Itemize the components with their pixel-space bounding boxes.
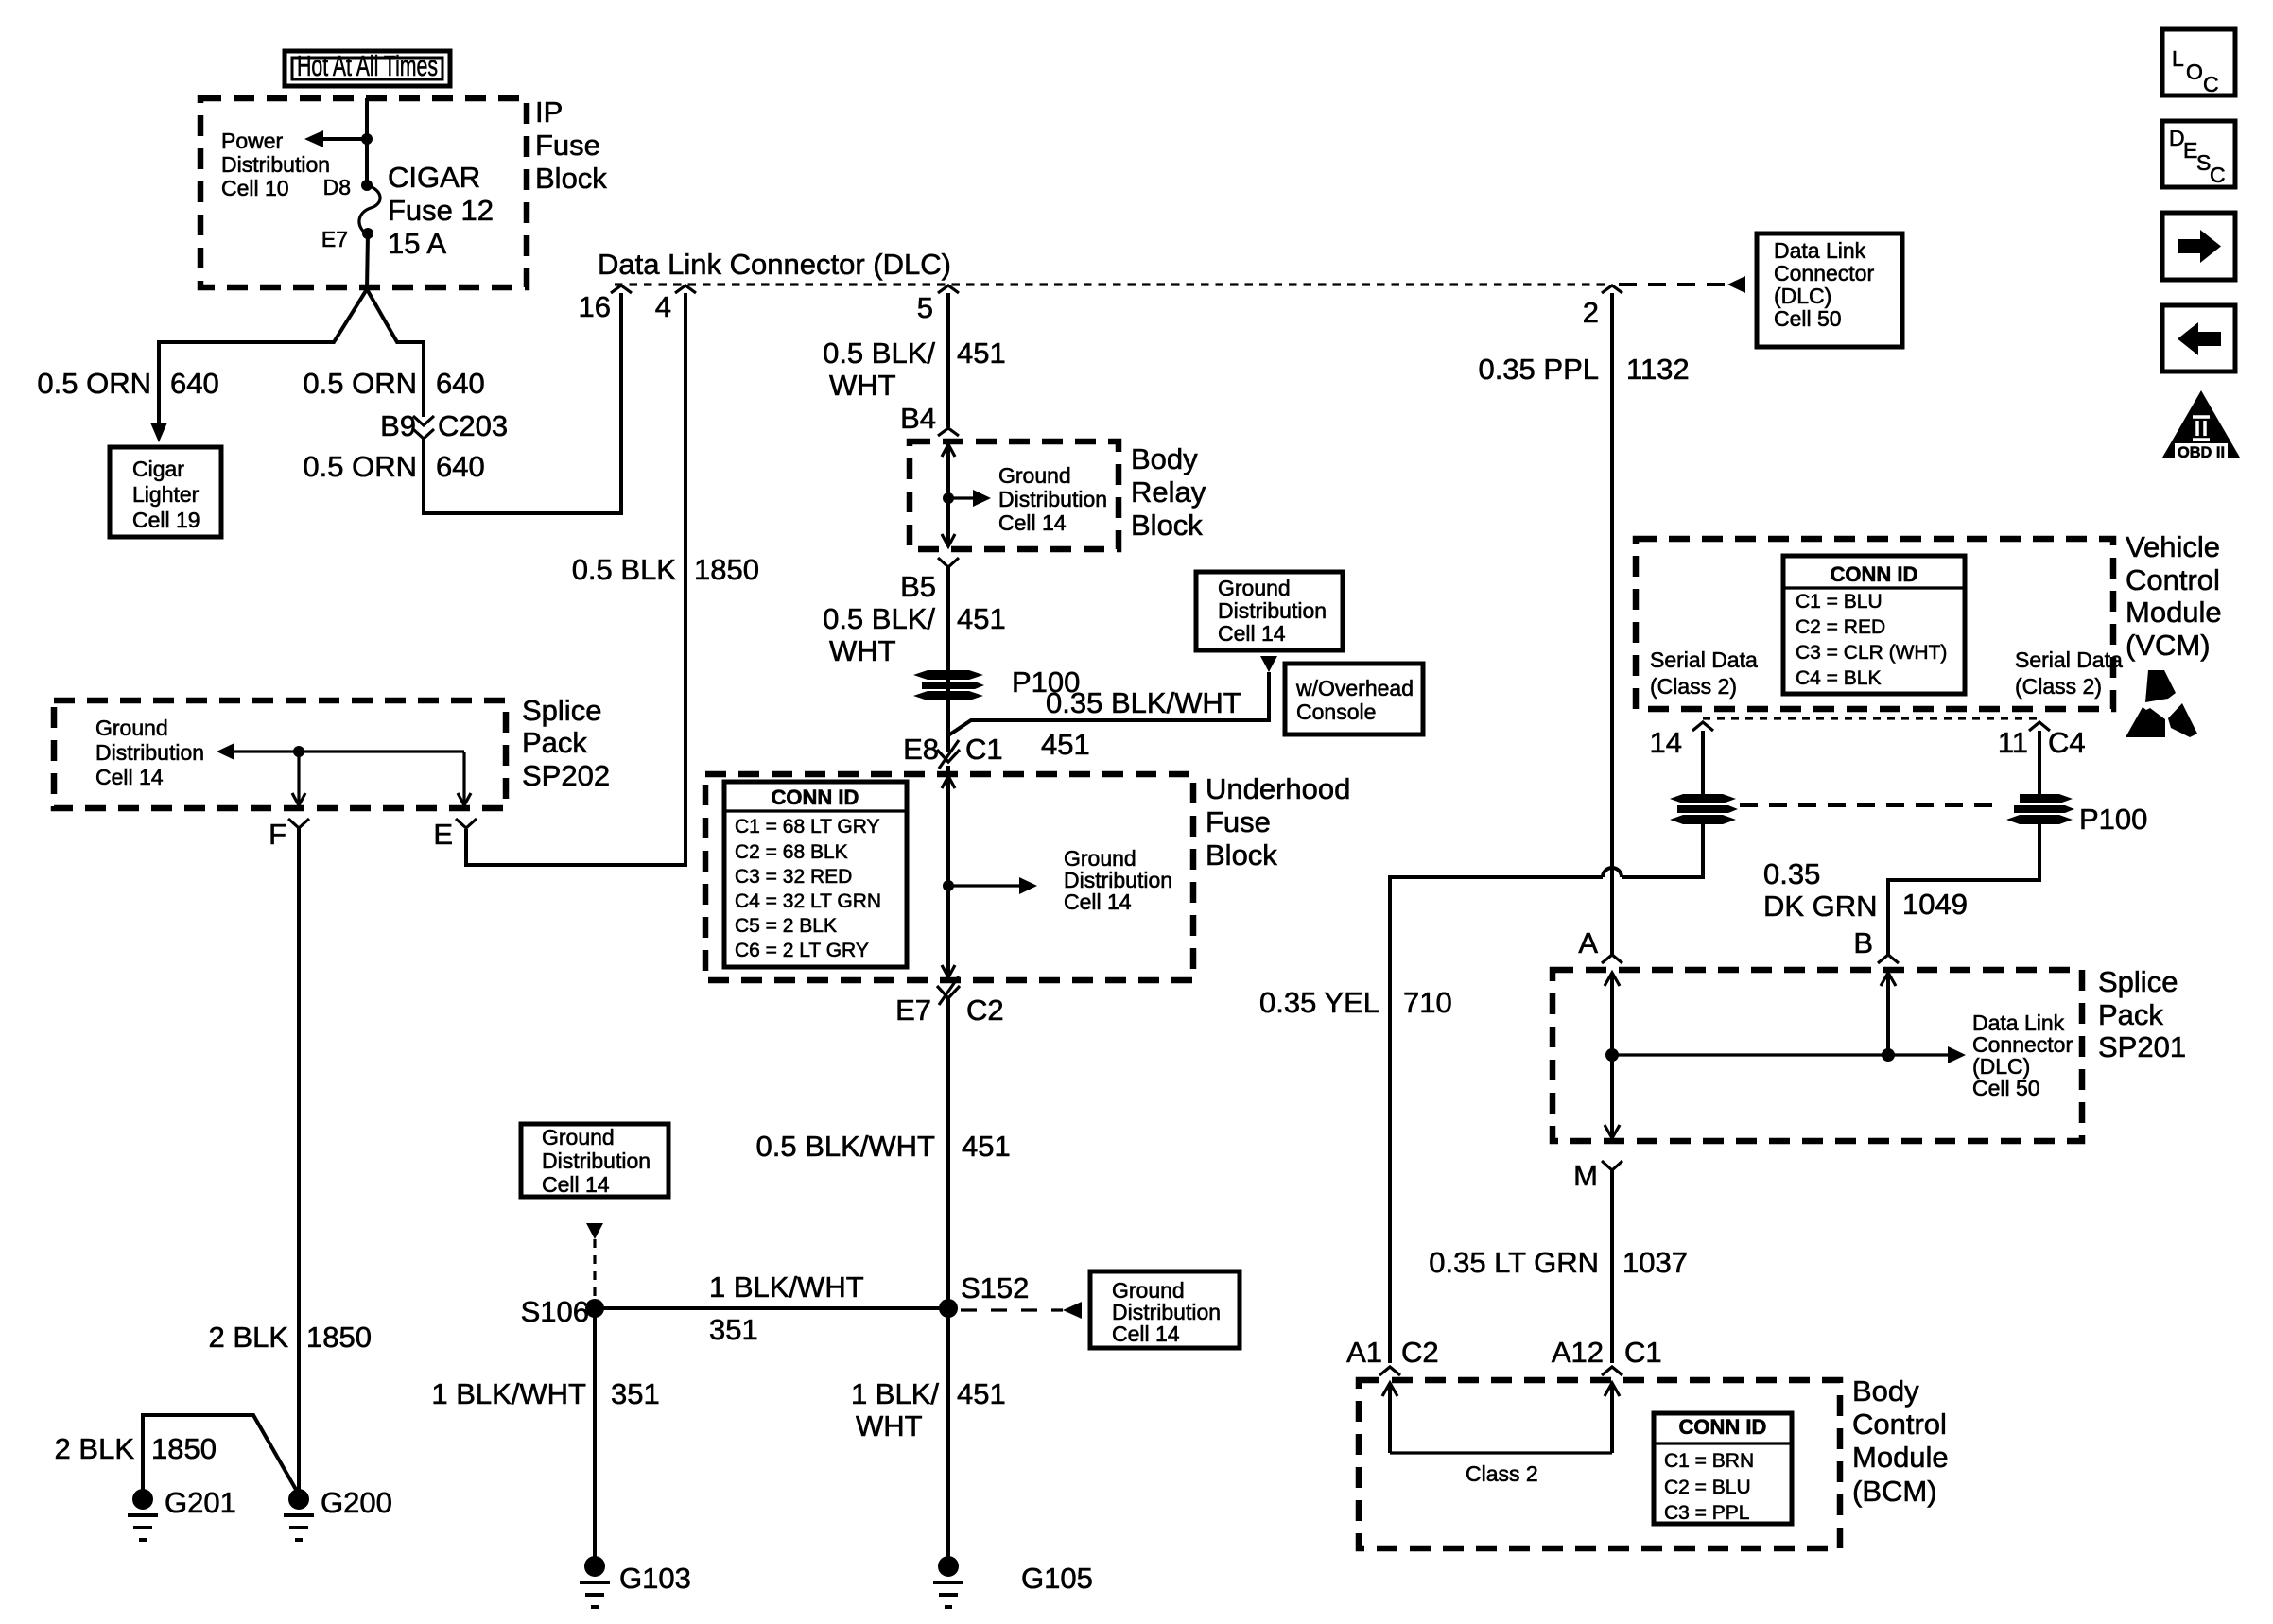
wire: P100 down then jog left to B <box>1888 819 2039 956</box>
svg-text:Module: Module <box>2126 596 2222 629</box>
arrow to data link connector (tip right) <box>1948 1046 1966 1063</box>
node: tap to ground distribution <box>943 492 954 504</box>
svg-text:C3 = 32 RED: C3 = 32 RED <box>735 866 852 888</box>
svg-text:Cell 14: Cell 14 <box>1112 1322 1180 1346</box>
svg-text:w/Overhead: w/Overhead <box>1295 676 1414 700</box>
DLC pin 5 chevron <box>938 285 959 293</box>
DLC connector face (dashed bus) <box>615 283 1607 285</box>
svg-text:CONN ID: CONN ID <box>1679 1415 1767 1439</box>
wire: S106 down to G103 <box>593 1308 597 1566</box>
svg-text:E7: E7 <box>321 227 348 251</box>
wire: pin 11 to P100 <box>2038 731 2041 794</box>
svg-text:DK GRN: DK GRN <box>1763 890 1878 923</box>
svg-text:C1: C1 <box>1624 1336 1662 1369</box>
svg-text:Cell 14: Cell 14 <box>1064 890 1132 914</box>
svg-text:B5: B5 <box>900 570 936 603</box>
wire: DLC pin 5 down to B4 <box>946 293 950 427</box>
arrow down (SP201 A exit) <box>1605 1125 1620 1138</box>
svg-text:Pack: Pack <box>522 726 587 759</box>
svg-text:SP201: SP201 <box>2098 1030 2186 1063</box>
ground distribution cell 14 box (S152) <box>1090 1271 1240 1348</box>
svg-text:B4: B4 <box>900 402 936 435</box>
svg-text:C4: C4 <box>2048 726 2086 759</box>
ground G103 <box>580 1556 610 1607</box>
svg-text:0.35 LT GRN: 0.35 LT GRN <box>1429 1246 1599 1279</box>
connector B5 chevron <box>938 558 959 567</box>
w/overhead console box <box>1285 664 1423 734</box>
svg-text:O: O <box>2186 60 2203 84</box>
connector A12 chevron <box>1602 1367 1622 1375</box>
wire: G201 branch <box>143 1415 299 1494</box>
connector P100 grommet (pin 14) <box>1670 794 1738 824</box>
svg-text:S106: S106 <box>521 1295 589 1328</box>
svg-text:Distribution: Distribution <box>998 487 1107 511</box>
wire: drop to F <box>297 752 300 803</box>
svg-text:Cell 14: Cell 14 <box>542 1172 610 1197</box>
svg-text:E: E <box>433 818 453 851</box>
svg-text:G201: G201 <box>165 1486 236 1519</box>
svg-text:CIGAR: CIGAR <box>388 161 480 194</box>
svg-text:Class 2: Class 2 <box>1466 1461 1538 1486</box>
arrow from ground distribution (tip left) <box>217 743 234 760</box>
svg-text:1 BLK/WHT: 1 BLK/WHT <box>709 1270 864 1304</box>
connector B chevron <box>1878 955 1899 963</box>
svg-text:5: 5 <box>917 291 933 324</box>
svg-text:Pack: Pack <box>2098 998 2163 1031</box>
svg-text:Relay: Relay <box>1131 475 1206 509</box>
connector P100 grommet (pin5 wire) <box>913 670 984 700</box>
fuse F12 squiggle <box>359 185 380 234</box>
svg-text:Block: Block <box>535 162 607 195</box>
svg-text:Serial Data: Serial Data <box>2015 648 2123 672</box>
node: SP201 splice junction A <box>1605 1048 1619 1062</box>
arrow up (BCM A12 entry) <box>1605 1383 1620 1396</box>
arrow up (SP201 B entry) <box>1881 973 1896 986</box>
svg-text:11: 11 <box>1998 726 2028 759</box>
svg-text:16: 16 <box>579 290 611 323</box>
svg-text:Fuse 12: Fuse 12 <box>388 194 494 227</box>
svg-text:SP202: SP202 <box>522 759 610 792</box>
connector E chevron <box>456 819 477 828</box>
arrow to Data Link Connector cell 50 box (tip left) <box>1727 276 1745 293</box>
wire: dashed from S152 to ground distribution arrow <box>961 1308 1063 1311</box>
svg-text:1850: 1850 <box>306 1321 372 1354</box>
svg-text:710: 710 <box>1403 986 1452 1019</box>
svg-text:(BCM): (BCM) <box>1852 1475 1937 1508</box>
svg-text:Body: Body <box>1852 1374 1919 1408</box>
svg-text:0.5 ORN: 0.5 ORN <box>37 367 151 400</box>
svg-text:C5 = 2 BLK: C5 = 2 BLK <box>735 915 837 937</box>
svg-text:Cell 10: Cell 10 <box>221 176 289 200</box>
connector A chevron <box>1602 955 1622 963</box>
svg-text:C: C <box>2203 72 2219 96</box>
arrow down (body relay bottom) <box>942 534 955 546</box>
svg-text:1 BLK/: 1 BLK/ <box>851 1377 939 1410</box>
svg-text:Body: Body <box>1131 442 1198 475</box>
svg-text:0.35 PPL: 0.35 PPL <box>1478 353 1599 386</box>
svg-text:CONN ID: CONN ID <box>1831 562 1918 586</box>
wire: F down to G200 <box>297 828 301 1492</box>
svg-text:Distribution: Distribution <box>221 152 330 177</box>
svg-text:2: 2 <box>1583 296 1599 329</box>
svg-text:C1: C1 <box>965 733 1003 766</box>
wire: through underhood block <box>946 766 950 977</box>
connector B4 chevron <box>938 428 959 436</box>
svg-text:Ground: Ground <box>95 716 168 740</box>
cigar lighter box <box>110 447 221 537</box>
wire: dashed stub to S106 <box>593 1239 596 1301</box>
svg-text:Vehicle: Vehicle <box>2126 530 2220 563</box>
wire: pin 14 to P100 <box>1701 731 1705 794</box>
svg-text:G103: G103 <box>619 1562 691 1595</box>
svg-text:Block: Block <box>1131 509 1203 542</box>
wire: A12 into BCM to class 2 bus <box>1610 1383 1614 1453</box>
svg-text:C3 = PPL: C3 = PPL <box>1664 1502 1749 1524</box>
arrow to ground distribution (tip right) <box>1019 877 1037 894</box>
svg-text:0.5 BLK/WHT: 0.5 BLK/WHT <box>756 1130 936 1163</box>
wire: through body relay block <box>946 444 950 546</box>
svg-text:Control: Control <box>2126 563 2220 596</box>
svg-text:Ground: Ground <box>998 463 1071 488</box>
wire: tap line (underhood) <box>948 884 1020 887</box>
svg-text:Block: Block <box>1206 838 1277 872</box>
svg-text:(DLC): (DLC) <box>1774 284 1831 308</box>
wire: splice bus to DLC cell 50 arrow <box>1612 1053 1948 1056</box>
arrow to ground distribution (tip right) <box>973 490 991 507</box>
hop over pin2 wire <box>1603 868 1622 877</box>
wire: fuse output to fork apex <box>367 233 368 289</box>
svg-text:B: B <box>1853 926 1873 959</box>
svg-text:C203: C203 <box>438 409 508 442</box>
svg-text:C2 = 68 BLK: C2 = 68 BLK <box>735 841 848 863</box>
wire: P100 to corner then left with hop to YEL drop <box>1622 819 1703 877</box>
svg-text:C2: C2 <box>1401 1336 1439 1369</box>
svg-text:0.35: 0.35 <box>1763 857 1820 890</box>
wire: drop to E <box>462 752 465 803</box>
svg-text:D8: D8 <box>323 175 351 199</box>
svg-text:0.5 BLK/: 0.5 BLK/ <box>823 337 935 370</box>
svg-text:B9: B9 <box>380 409 416 442</box>
svg-text:Data Link: Data Link <box>1774 238 1866 263</box>
svg-text:451: 451 <box>957 1377 1006 1410</box>
svg-text:Underhood: Underhood <box>1206 772 1350 805</box>
svg-text:15 A: 15 A <box>388 227 446 260</box>
node D8 <box>361 180 373 191</box>
arrow down (underhood bottom) <box>942 965 955 977</box>
connector F chevron <box>288 819 309 828</box>
icon DESC <box>2162 121 2235 187</box>
wire: A1 into BCM to class 2 bus <box>1388 1383 1392 1453</box>
wire: branch to overhead console <box>948 672 1269 735</box>
svg-text:Cell 14: Cell 14 <box>998 510 1067 535</box>
svg-text:(Class 2): (Class 2) <box>1650 674 1737 699</box>
svg-text:(VCM): (VCM) <box>2126 629 2211 662</box>
arrow up (body relay top) <box>942 444 955 457</box>
connector M chevron <box>1602 1161 1622 1170</box>
wire: fork right branch <box>367 289 424 417</box>
svg-text:451: 451 <box>957 337 1006 370</box>
icon ESD sensitive device <box>2126 670 2197 737</box>
svg-text:1850: 1850 <box>151 1432 217 1465</box>
node: tap to ground distribution (underhood) <box>943 880 954 891</box>
wire: tap line <box>948 496 974 499</box>
arrow up (underhood top) <box>942 776 955 788</box>
VCM pin 14 chevron <box>1692 722 1713 731</box>
svg-text:C1 = BRN: C1 = BRN <box>1664 1450 1754 1472</box>
svg-text:A12: A12 <box>1552 1336 1604 1369</box>
IP fuse block (dashed box) <box>200 98 527 287</box>
wire: B into SP201 <box>1886 973 1890 1055</box>
svg-text:640: 640 <box>436 367 485 400</box>
node: junction at power distribution tap <box>361 133 373 145</box>
svg-text:1 BLK/WHT: 1 BLK/WHT <box>431 1377 586 1410</box>
svg-text:G105: G105 <box>1021 1562 1093 1595</box>
svg-text:Distribution: Distribution <box>95 740 204 765</box>
svg-text:Distribution: Distribution <box>542 1149 651 1173</box>
svg-text:C4 = 32 LT GRN: C4 = 32 LT GRN <box>735 890 881 912</box>
svg-text:Cell 50: Cell 50 <box>1972 1076 2040 1100</box>
ground G200 <box>284 1489 314 1540</box>
svg-text:351: 351 <box>709 1313 758 1346</box>
wire: dashed between P100 grommets <box>1740 803 2003 807</box>
svg-text:4: 4 <box>655 290 671 323</box>
svg-text:Ground: Ground <box>542 1125 615 1149</box>
svg-text:A: A <box>1578 926 1598 959</box>
svg-text:E8: E8 <box>903 733 939 766</box>
wire: B5 down through P100 to E8 <box>946 567 950 752</box>
svg-text:L: L <box>2172 46 2184 71</box>
svg-text:Cell 14: Cell 14 <box>95 765 164 789</box>
svg-text:1049: 1049 <box>1902 888 1968 921</box>
svg-text:Cigar: Cigar <box>132 457 184 481</box>
node S106 <box>585 1299 604 1318</box>
connector A1 chevron <box>1379 1367 1400 1375</box>
wire: A into SP201 <box>1610 973 1614 1138</box>
wire: S106 to S152 <box>595 1306 948 1310</box>
wire: splice bus inside SP202 <box>232 750 464 752</box>
node S152 <box>939 1299 958 1318</box>
svg-text:Fuse: Fuse <box>1206 805 1271 838</box>
DLC pin 2 chevron <box>1602 285 1622 293</box>
svg-text:Lighter: Lighter <box>132 482 200 507</box>
svg-text:Cell 19: Cell 19 <box>132 508 200 532</box>
arrow up (BCM A1 entry) <box>1382 1383 1397 1396</box>
svg-text:1132: 1132 <box>1626 353 1690 386</box>
svg-text:C2 = RED: C2 = RED <box>1796 616 1885 638</box>
svg-text:14: 14 <box>1650 726 1682 759</box>
icon LOC <box>2162 29 2235 96</box>
arrow down from box to S106 <box>586 1223 603 1239</box>
svg-text:M: M <box>1573 1159 1598 1192</box>
svg-text:640: 640 <box>170 367 219 400</box>
splice pack SP201 (dashed box) <box>1553 970 2082 1141</box>
wire: fork left branch <box>159 289 367 424</box>
wire: DLC pin 4 down to SP202 E leg <box>466 293 685 865</box>
ground distribution cell 14 box (above S106) <box>521 1124 668 1197</box>
VCM pin 11 chevron <box>2029 722 2050 731</box>
svg-text:C: C <box>2210 163 2226 187</box>
svg-text:P100: P100 <box>2079 803 2147 836</box>
svg-text:2 BLK: 2 BLK <box>55 1432 135 1465</box>
arrow into cigar lighter <box>150 423 167 442</box>
CONN ID table (BCM) <box>1654 1413 1792 1524</box>
wire: tap to power distribution arrow <box>322 137 367 141</box>
svg-text:451: 451 <box>962 1130 1011 1163</box>
wire: S152 down to G105 <box>946 1308 950 1566</box>
svg-text:2 BLK: 2 BLK <box>209 1321 289 1354</box>
ground distribution cell 14 box (overhead) <box>1196 572 1343 650</box>
wire: class 2 bus <box>1390 1451 1612 1454</box>
svg-text:Serial Data: Serial Data <box>1650 648 1758 672</box>
svg-text:C3 = CLR (WHT): C3 = CLR (WHT) <box>1796 642 1947 664</box>
svg-text:C6 = 2 LT GRY: C6 = 2 LT GRY <box>735 940 869 961</box>
node: splice junction <box>293 746 304 757</box>
arrow to ground distribution (tip left, S152) <box>1063 1302 1082 1319</box>
node E7 (fuse lower end) <box>362 228 373 239</box>
svg-text:0.5 BLK: 0.5 BLK <box>572 553 677 586</box>
svg-text:Module: Module <box>1852 1441 1949 1474</box>
wire: C203 down then right to DLC pin 16 column <box>424 293 621 513</box>
svg-text:WHT: WHT <box>829 369 896 402</box>
svg-text:Power: Power <box>221 129 284 153</box>
connector P100 grommet (pin 11) <box>2006 794 2074 824</box>
hot-at-all-times header box <box>285 49 450 86</box>
svg-text:1850: 1850 <box>694 553 759 586</box>
body control module (dashed box) <box>1359 1380 1840 1548</box>
data link connector cell 50 reference box <box>1757 233 1902 347</box>
arrow down at F exit <box>292 793 305 805</box>
arrow to Power Distribution (tip left) <box>304 130 323 147</box>
svg-text:C1 = BLU: C1 = BLU <box>1796 591 1883 613</box>
svg-text:OBD II: OBD II <box>2178 443 2225 461</box>
svg-text:S152: S152 <box>961 1271 1029 1304</box>
svg-text:0.5 ORN: 0.5 ORN <box>303 367 417 400</box>
svg-text:Ground: Ground <box>1218 576 1291 600</box>
svg-text:Splice: Splice <box>2098 965 2178 998</box>
svg-text:Console: Console <box>1296 700 1376 724</box>
svg-text:CONN ID: CONN ID <box>772 786 859 809</box>
connector E7/C2 (chevron with slash) <box>937 986 960 998</box>
arrow up (SP201 A entry) <box>1605 973 1620 986</box>
VCM connector face (thin dashed) <box>1703 717 2039 719</box>
svg-text:Control: Control <box>1852 1408 1947 1441</box>
body relay block (dashed box) <box>910 441 1119 549</box>
svg-text:0.5 BLK/: 0.5 BLK/ <box>823 602 935 635</box>
svg-text:WHT: WHT <box>829 634 896 667</box>
svg-text:(Class 2): (Class 2) <box>2015 674 2102 699</box>
wire: E7 down to S152 <box>946 998 950 1308</box>
DLC pin 4 chevron <box>675 285 696 293</box>
svg-text:1037: 1037 <box>1622 1246 1688 1279</box>
svg-text:0.35 BLK/WHT: 0.35 BLK/WHT <box>1046 686 1241 719</box>
DLC pin 16 chevron <box>611 285 632 293</box>
svg-text:C4 = BLK: C4 = BLK <box>1796 667 1881 689</box>
arrow down at E exit <box>458 793 471 805</box>
svg-text:Cell 14: Cell 14 <box>1218 621 1286 646</box>
svg-text:451: 451 <box>1041 728 1090 761</box>
icon arrow right <box>2162 213 2235 280</box>
svg-text:Data Link Connector (DLC): Data Link Connector (DLC) <box>598 248 951 281</box>
svg-text:Connector: Connector <box>1774 261 1874 285</box>
wire: DLC pin 2 down to A <box>1610 293 1614 956</box>
ground G105 <box>933 1556 963 1607</box>
svg-text:Splice: Splice <box>522 694 601 727</box>
underhood fuse block (dashed box) <box>705 774 1193 980</box>
svg-text:0.35 YEL: 0.35 YEL <box>1259 986 1379 1019</box>
svg-text:451: 451 <box>957 602 1006 635</box>
wire: feed from top edge to fuse <box>365 98 369 185</box>
svg-text:Hot At All Times: Hot At All Times <box>297 49 438 82</box>
splice pack SP202 (dashed box) <box>54 700 506 808</box>
wire: M down to A12 <box>1610 1170 1614 1363</box>
connector C203 (double chevron) <box>413 416 434 425</box>
svg-text:E7: E7 <box>895 993 931 1027</box>
svg-text:Cell 50: Cell 50 <box>1774 306 1842 331</box>
svg-text:IP: IP <box>535 95 563 129</box>
svg-text:351: 351 <box>611 1377 660 1410</box>
icon OBD II triangle <box>2162 390 2240 461</box>
svg-text:WHT: WHT <box>856 1409 923 1443</box>
wire: hop to left corner <box>1390 877 1603 1363</box>
svg-text:C2: C2 <box>966 993 1004 1027</box>
CONN ID table (VCM) <box>1783 556 1965 694</box>
svg-text:C1 = 68 LT GRY: C1 = 68 LT GRY <box>735 816 880 838</box>
icon arrow left <box>2162 305 2235 371</box>
node: SP201 splice junction B <box>1882 1048 1895 1062</box>
svg-text:Distribution: Distribution <box>1218 598 1327 623</box>
arrow down from ground distribution cell14 (overhead) <box>1260 656 1277 672</box>
svg-text:640: 640 <box>436 450 485 483</box>
vehicle control module (dashed box) <box>1636 539 2113 709</box>
svg-text:G200: G200 <box>321 1486 392 1519</box>
wire: dashed continuation to DLC cell 50 arrow <box>1619 283 1725 286</box>
svg-text:0.5 ORN: 0.5 ORN <box>303 450 417 483</box>
CONN ID table (underhood) <box>724 782 907 967</box>
svg-text:A1: A1 <box>1346 1336 1382 1369</box>
svg-text:F: F <box>269 818 286 851</box>
ground G201 <box>128 1489 158 1540</box>
svg-text:C2 = BLU: C2 = BLU <box>1664 1477 1751 1498</box>
svg-text:Fuse: Fuse <box>535 129 600 162</box>
connector E8/C1 (chevron with slash) <box>937 750 960 762</box>
